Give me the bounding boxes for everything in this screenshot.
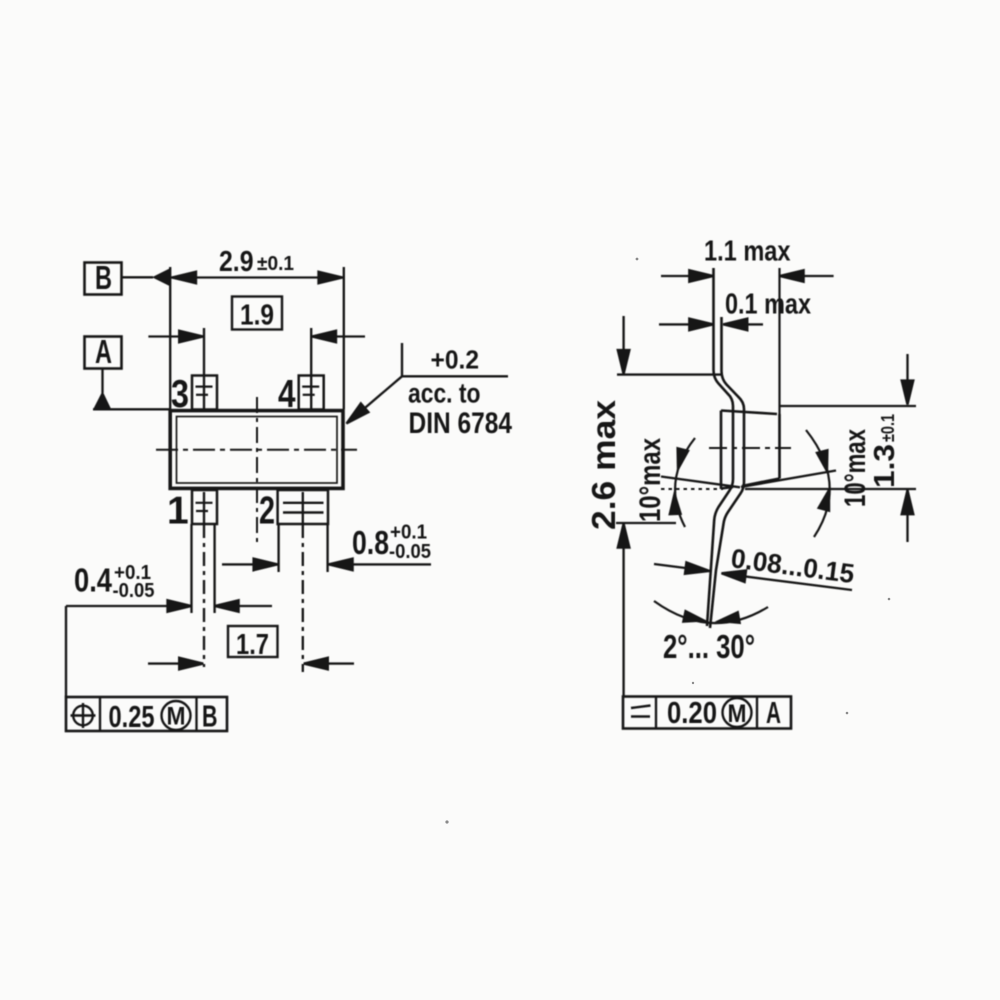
dimension 2.6 max	[585, 316, 722, 697]
dimension 2.9 +-0.1	[170, 246, 344, 409]
2 deg ... 30 deg arc	[654, 601, 768, 665]
pin 1 lead extension lines	[192, 524, 215, 667]
seating plane tangent line left	[661, 477, 740, 488]
datum B box	[85, 259, 122, 296]
svg-text:2.9: 2.9	[219, 246, 254, 278]
datum A box	[85, 333, 122, 370]
svg-text:M: M	[167, 703, 186, 731]
svg-text:DIN 6784: DIN 6784	[409, 407, 513, 440]
svg-text:0.25: 0.25	[109, 699, 155, 734]
svg-text:0.4: 0.4	[74, 562, 113, 599]
svg-text:2°... 30°: 2°... 30°	[663, 628, 755, 665]
svg-text:0.20: 0.20	[667, 695, 717, 730]
svg-text:+0.2: +0.2	[431, 345, 480, 375]
dimension 1.7 (boxed)	[148, 626, 354, 669]
svg-text:1.7: 1.7	[236, 629, 269, 661]
left 10 deg max arc	[634, 438, 695, 527]
svg-text:4: 4	[278, 373, 296, 416]
lead profile (side view S-shape)	[707, 268, 744, 628]
svg-text:-0.05: -0.05	[389, 541, 431, 563]
svg-text:1: 1	[167, 490, 189, 533]
dimension 1.1 max	[661, 236, 834, 282]
vertical centerline (dash-dot)	[256, 397, 258, 546]
svg-text:2.6 max: 2.6 max	[585, 399, 622, 530]
dimension 0.08...0.15	[654, 543, 856, 590]
horizontal centerline (dash-dot)	[156, 449, 357, 451]
svg-text:-0.05: -0.05	[113, 580, 155, 602]
dimension 1.3 +-0.1	[780, 354, 917, 542]
svg-text:10°max: 10°max	[634, 438, 667, 522]
feature control frame (parallel 0.20 M A)	[623, 695, 791, 730]
package body (top view, double outline)	[170, 411, 343, 489]
side view centerline (dash-dot)	[709, 447, 791, 449]
svg-text:B: B	[202, 699, 218, 734]
svg-text:1.9: 1.9	[240, 300, 274, 332]
seating plane tangent line right	[741, 471, 836, 488]
pin 2 lead extension lines	[279, 524, 328, 672]
svg-text:A: A	[766, 695, 781, 730]
pin 2	[259, 490, 328, 533]
dimension 1.9 (boxed)	[148, 297, 365, 410]
svg-text:acc. to: acc. to	[408, 378, 481, 409]
feature control frame (position 0.25 M B)	[66, 697, 227, 734]
svg-text:3: 3	[171, 373, 189, 416]
pin 1	[167, 490, 217, 533]
package body (side view)	[721, 268, 780, 489]
datum A triangle and datum line	[93, 369, 170, 410]
svg-text:10°max: 10°max	[839, 429, 872, 507]
svg-text:2: 2	[259, 490, 275, 533]
svg-text:M: M	[728, 700, 747, 728]
seating plane line (dotted left, solid right)	[661, 488, 916, 490]
dimension 0.1 max	[659, 289, 811, 331]
dimension 0.8 +0.1/-0.05	[222, 522, 431, 571]
svg-text:±0.1: ±0.1	[878, 414, 898, 442]
pin 3	[171, 373, 217, 416]
svg-text:0.8: 0.8	[352, 524, 389, 561]
datum B leader with solid triangle	[122, 268, 172, 287]
dimension 0.4 +0.1/-0.05	[66, 562, 272, 698]
right 10 deg max arc	[806, 429, 872, 537]
scan specks	[445, 258, 890, 824]
svg-text:A: A	[95, 333, 112, 370]
svg-text:1.1 max: 1.1 max	[704, 236, 791, 268]
svg-text:B: B	[95, 259, 112, 296]
svg-text:1.3: 1.3	[869, 444, 901, 488]
leader +0.2 acc. to DIN 6784	[343, 343, 513, 440]
pin 4	[278, 373, 324, 416]
svg-text:±0.1: ±0.1	[257, 253, 294, 275]
svg-text:0.1 max: 0.1 max	[725, 289, 811, 321]
